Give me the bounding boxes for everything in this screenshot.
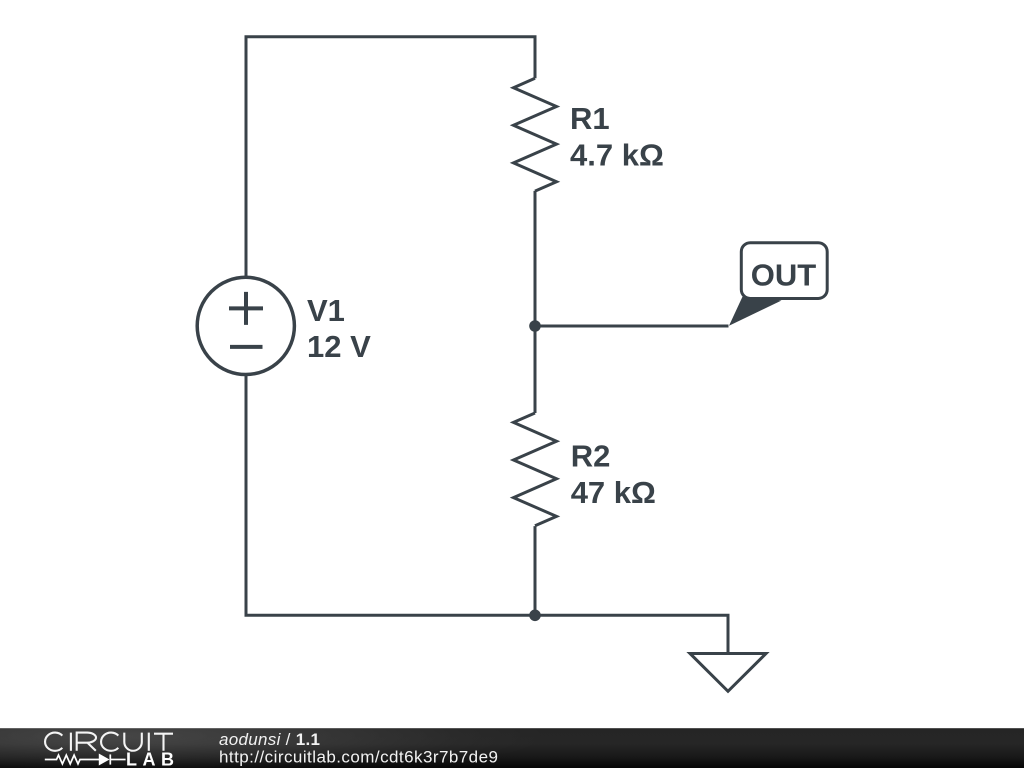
svg-text:12 V: 12 V	[307, 329, 371, 364]
ground	[690, 654, 766, 692]
CircuitLab logo wordmark CIRCUIT	[45, 733, 173, 751]
node OUT flag	[729, 243, 827, 326]
svg-text:R1: R1	[570, 101, 610, 136]
footer bar	[0, 691, 1024, 768]
node junction (ground node)	[529, 610, 541, 622]
CircuitLab logo resistor-diode glyph	[45, 754, 126, 764]
wire	[246, 37, 535, 278]
svg-text:47 kΩ: 47 kΩ	[571, 475, 656, 510]
wire	[535, 615, 728, 653]
node junction (OUT node)	[529, 320, 541, 332]
wire	[534, 526, 537, 615]
resistor R1	[514, 78, 557, 191]
svg-text:V1: V1	[307, 293, 345, 328]
resistor R2	[514, 413, 557, 526]
wire	[535, 325, 729, 328]
svg-text:OUT: OUT	[751, 257, 817, 292]
svg-text:4.7 kΩ: 4.7 kΩ	[570, 137, 664, 172]
wire	[246, 374, 535, 616]
wire	[534, 191, 537, 326]
svg-text:aodunsi / 1.1: aodunsi / 1.1	[219, 730, 320, 749]
svg-text:R2: R2	[571, 438, 611, 473]
svg-text:LAB: LAB	[126, 750, 180, 768]
voltage source V1	[197, 277, 294, 374]
svg-text:http://circuitlab.com/cdt6k3r7: http://circuitlab.com/cdt6k3r7b7de9	[219, 748, 498, 767]
wire	[534, 326, 537, 413]
